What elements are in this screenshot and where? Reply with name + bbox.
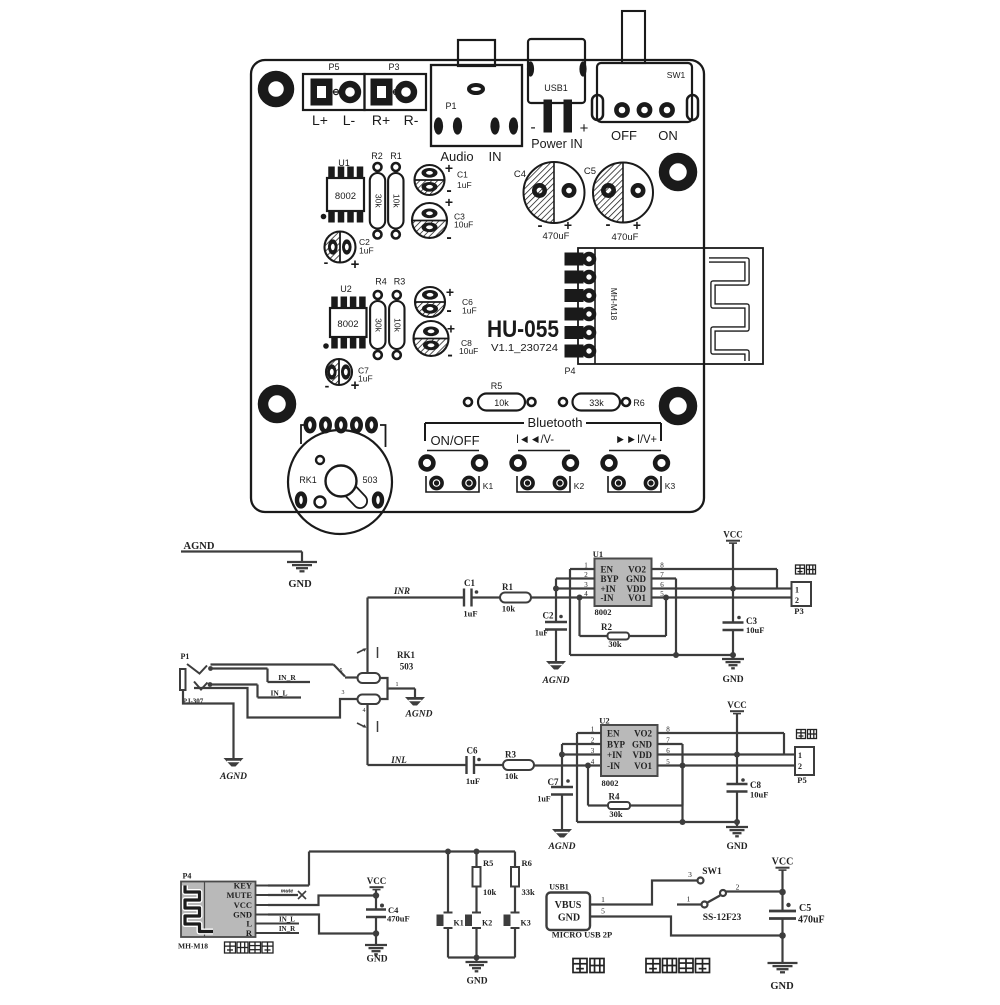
svg-text:+: + xyxy=(633,217,641,233)
svg-text:30k: 30k xyxy=(373,194,383,208)
svg-text:VO1: VO1 xyxy=(634,761,652,771)
ground xyxy=(287,561,317,563)
svg-text:2: 2 xyxy=(736,883,740,892)
svg-text:-: - xyxy=(446,229,451,246)
wire U2 +IN join xyxy=(562,753,601,755)
mounting hole top-right xyxy=(664,158,692,186)
net stub IN L xyxy=(256,923,299,925)
svg-text:1uF: 1uF xyxy=(466,776,480,786)
svg-text:VCC: VCC xyxy=(234,900,252,910)
key gnd rail xyxy=(448,956,515,958)
pot section 2 xyxy=(358,695,381,705)
svg-text:VDD: VDD xyxy=(633,750,653,760)
svg-text:ON: ON xyxy=(658,128,678,143)
pot section 1 xyxy=(358,673,381,683)
svg-text:►►I/V+: ►►I/V+ xyxy=(615,432,657,446)
wire U2 VDD row xyxy=(658,753,785,755)
svg-text:3: 3 xyxy=(342,690,345,696)
svg-text:K3: K3 xyxy=(665,481,676,491)
svg-text:ON/OFF: ON/OFF xyxy=(430,433,479,448)
svg-text:P4: P4 xyxy=(564,366,575,376)
wire U1 VO1 to P3 pin2 xyxy=(652,596,792,598)
svg-text:-IN: -IN xyxy=(607,761,620,771)
svg-text:U2: U2 xyxy=(340,284,352,294)
ground under C4 xyxy=(365,944,387,946)
node VO1 junction ch2 xyxy=(680,763,686,769)
svg-text:INR: INR xyxy=(393,586,410,596)
svg-text:1: 1 xyxy=(601,895,605,904)
svg-text:EN: EN xyxy=(607,729,620,739)
svg-text:VO1: VO1 xyxy=(628,593,646,603)
wire C6 to R3 xyxy=(474,764,503,766)
svg-text:VO2: VO2 xyxy=(634,729,652,739)
svg-text:C2: C2 xyxy=(543,611,554,621)
svg-text:R4: R4 xyxy=(609,792,620,802)
svg-text:-: - xyxy=(447,347,452,364)
wire U1 GND to rail xyxy=(652,577,677,579)
net stub IN L xyxy=(210,683,258,685)
svg-text:2: 2 xyxy=(795,596,799,605)
svg-text:8002: 8002 xyxy=(337,319,358,330)
potentiometer RK1 silkscreen xyxy=(301,425,306,444)
svg-text:10uF: 10uF xyxy=(454,220,473,230)
capacitor C7 1uF xyxy=(326,359,339,385)
svg-text:Power IN: Power IN xyxy=(531,137,582,151)
capacitor C4 470uF xyxy=(380,904,384,908)
speaker connector P3 xyxy=(796,565,805,574)
capacitor C3 10uF xyxy=(412,221,447,239)
svg-text:+: + xyxy=(445,160,453,176)
svg-text:33k: 33k xyxy=(589,398,604,408)
svg-text:AGND: AGND xyxy=(405,710,433,720)
svg-text:GND: GND xyxy=(770,981,794,992)
resistor R6 33k silkscreen xyxy=(559,398,567,406)
svg-text:K1: K1 xyxy=(483,481,494,491)
node BYP/+IN junction xyxy=(553,586,559,592)
ground main xyxy=(768,962,798,964)
analog ground AGND under C2 xyxy=(546,661,566,670)
wire INL to C6 xyxy=(368,764,467,766)
svg-text:R5: R5 xyxy=(491,381,503,391)
svg-text:3: 3 xyxy=(688,870,692,879)
node -IN junction xyxy=(577,595,583,601)
mounting hole top-left xyxy=(263,76,289,102)
svg-text:503: 503 xyxy=(362,475,377,485)
svg-text:8002: 8002 xyxy=(602,778,619,788)
svg-text:10uF: 10uF xyxy=(459,346,478,356)
node VDD/VCC junction xyxy=(730,586,736,592)
svg-text:30k: 30k xyxy=(374,318,384,332)
svg-text:1: 1 xyxy=(798,751,802,760)
svg-text:SW1: SW1 xyxy=(702,867,722,877)
capacitor C8 10uF xyxy=(741,778,745,782)
svg-text:AGND: AGND xyxy=(184,541,215,552)
wiper wire from INR xyxy=(366,598,368,674)
wire USB GND to C5 xyxy=(590,917,783,936)
antenna trace xyxy=(709,260,747,361)
svg-text:R6: R6 xyxy=(633,398,645,408)
svg-text:P3: P3 xyxy=(388,62,399,72)
svg-text:R2: R2 xyxy=(601,622,612,632)
svg-text:R: R xyxy=(246,928,253,938)
USB power connector USB1 xyxy=(528,39,585,103)
ground under keys xyxy=(466,961,488,963)
label power switch (chinese) xyxy=(646,959,660,973)
svg-text:2: 2 xyxy=(798,762,802,771)
svg-text:R2: R2 xyxy=(371,151,383,161)
key K1 branch xyxy=(447,852,449,913)
wire U1 BYP to C2 xyxy=(556,577,595,579)
svg-text:P4: P4 xyxy=(183,872,192,881)
analog ground AGND pot xyxy=(405,697,425,706)
svg-text:1uF: 1uF xyxy=(537,795,550,804)
wire U1 +IN join xyxy=(556,587,595,589)
svg-text:C5: C5 xyxy=(799,903,811,914)
mounting hole bottom-right xyxy=(664,392,692,420)
svg-text:10k: 10k xyxy=(502,604,516,614)
svg-text:K3: K3 xyxy=(521,919,531,928)
svg-text:GND: GND xyxy=(632,740,653,750)
svg-text:MH-M18: MH-M18 xyxy=(609,288,619,321)
wire U2 EN down to gnd rail xyxy=(577,732,601,734)
svg-text:1uF: 1uF xyxy=(463,609,477,619)
wire U2 VO1 to P5 pin2 xyxy=(658,764,796,766)
capacitor C6 1uF xyxy=(465,756,467,774)
svg-text:R-: R- xyxy=(404,112,419,128)
svg-text:GND: GND xyxy=(722,675,743,685)
svg-text:P1: P1 xyxy=(181,652,190,661)
svg-text:10k: 10k xyxy=(483,887,497,897)
svg-text:C1: C1 xyxy=(464,578,475,588)
wire U1 VDD row xyxy=(652,587,778,589)
wire jack sleeve to AGND xyxy=(183,690,234,758)
svg-text:R+: R+ xyxy=(372,112,390,128)
tact switch K1 xyxy=(427,450,479,452)
feedback resistor R4 30k xyxy=(587,766,589,806)
wire R3 to U2 pin4 xyxy=(534,764,601,766)
pcb board outline xyxy=(251,60,704,512)
svg-text:V1.1_230724: V1.1_230724 xyxy=(491,342,558,354)
svg-text:-IN: -IN xyxy=(601,593,614,603)
connector P3 terminal block xyxy=(365,74,427,110)
wire INR to C1 xyxy=(368,596,465,598)
svg-text:L-: L- xyxy=(343,112,356,128)
svg-text:C4: C4 xyxy=(514,169,526,180)
wire module VCC to C4 xyxy=(268,896,376,906)
resistor R6 33k + key K3 branch xyxy=(514,852,516,868)
svg-text:30k: 30k xyxy=(608,639,622,649)
feedback resistor R2 30k xyxy=(578,598,580,637)
capacitor C8 10uF xyxy=(414,339,449,357)
svg-text:P5: P5 xyxy=(328,62,339,72)
svg-text:-: - xyxy=(325,378,330,394)
svg-text:GND: GND xyxy=(726,842,747,852)
svg-text:C1: C1 xyxy=(457,170,468,180)
mounting hole bottom-left xyxy=(263,390,291,418)
svg-text:C8: C8 xyxy=(750,780,761,790)
svg-text:+IN: +IN xyxy=(607,750,623,760)
node VO1 junction xyxy=(663,595,669,601)
svg-text:470uF: 470uF xyxy=(543,231,570,242)
svg-text:1uF: 1uF xyxy=(359,246,374,256)
svg-text:8002: 8002 xyxy=(335,191,356,202)
svg-text:IN_R: IN_R xyxy=(279,925,296,933)
svg-text:R3: R3 xyxy=(394,277,406,287)
svg-text:AGND: AGND xyxy=(219,772,247,782)
svg-text:GND: GND xyxy=(558,913,580,924)
tact switch K2 xyxy=(518,450,570,452)
svg-text:+: + xyxy=(445,194,453,210)
capacitor C1 1uF xyxy=(415,180,445,195)
ground under C8 xyxy=(736,822,738,827)
wire U2 BYP to C7 xyxy=(562,743,601,745)
audio jack P1 xyxy=(458,40,495,66)
svg-text:KEY: KEY xyxy=(234,881,252,891)
svg-text:-: - xyxy=(446,302,451,319)
svg-text:10uF: 10uF xyxy=(750,790,768,800)
svg-text:4: 4 xyxy=(591,758,595,766)
wire U1 EN down to gnd rail xyxy=(570,568,595,570)
svg-text:+: + xyxy=(446,284,454,300)
gnd rail channel1 xyxy=(570,654,733,656)
capacitor C6 1uF xyxy=(415,302,445,317)
gnd rail channel2 xyxy=(577,821,737,823)
svg-text:33k: 33k xyxy=(522,887,536,897)
svg-text:RK1: RK1 xyxy=(397,650,416,660)
svg-text:BYP: BYP xyxy=(601,574,620,584)
tact switch K3 xyxy=(609,450,661,452)
svg-text:4: 4 xyxy=(363,708,366,714)
capacitor C2 1uF xyxy=(325,232,341,263)
analog ground AGND under C7 xyxy=(552,829,572,838)
svg-text:+: + xyxy=(351,256,360,273)
svg-text:IN_R: IN_R xyxy=(278,673,296,682)
svg-text:GND: GND xyxy=(366,955,387,965)
speaker connector P5 xyxy=(797,730,806,739)
svg-text:VBUS: VBUS xyxy=(555,900,582,911)
svg-text:1: 1 xyxy=(687,895,691,904)
svg-text:AGND: AGND xyxy=(542,676,570,686)
svg-text:VO2: VO2 xyxy=(628,565,646,575)
svg-text:K2: K2 xyxy=(482,919,492,928)
net stub IN R xyxy=(211,667,268,669)
svg-text:470uF: 470uF xyxy=(798,915,825,926)
svg-text:VCC: VCC xyxy=(723,530,743,540)
svg-text:10k: 10k xyxy=(392,194,402,208)
svg-text:MH-M18: MH-M18 xyxy=(178,942,208,951)
svg-text:-: - xyxy=(530,119,535,136)
wire U2 GND to rail xyxy=(658,743,683,745)
slide switch SW1 xyxy=(622,11,645,63)
svg-text:-: - xyxy=(324,254,329,270)
svg-text:8002: 8002 xyxy=(595,607,612,617)
wiper 2 down to INL xyxy=(366,704,368,765)
wire C1 to R1 xyxy=(472,596,501,598)
svg-text:L: L xyxy=(246,919,252,929)
svg-text:USB1: USB1 xyxy=(549,883,569,892)
svg-text:HU-055: HU-055 xyxy=(487,316,559,343)
key rail xyxy=(309,850,515,852)
svg-text:MUTE: MUTE xyxy=(227,890,253,900)
svg-text:P3: P3 xyxy=(794,606,803,616)
svg-text:MICRO USB 2P: MICRO USB 2P xyxy=(552,930,612,940)
capacitor C5 470uF xyxy=(786,903,790,907)
svg-text:5: 5 xyxy=(340,668,343,674)
svg-text:AGND: AGND xyxy=(548,842,576,852)
bluetooth module P4 MH-M18 xyxy=(181,882,256,938)
svg-text:GND: GND xyxy=(626,574,647,584)
wire R1 to U1 pin4 xyxy=(531,596,595,598)
capacitor C3 10uF xyxy=(737,616,741,620)
svg-text:C7: C7 xyxy=(548,777,559,787)
svg-text:SW1: SW1 xyxy=(667,70,686,80)
svg-text:BYP: BYP xyxy=(607,740,626,750)
ground under C3 xyxy=(732,655,734,659)
svg-text:R1: R1 xyxy=(390,151,402,161)
svg-text:USB1: USB1 xyxy=(544,83,568,93)
svg-text:10k: 10k xyxy=(505,771,519,781)
node BYP/+IN junction ch2 xyxy=(559,752,565,758)
board edge over module xyxy=(703,248,705,364)
svg-text:R6: R6 xyxy=(522,858,532,868)
svg-text:5: 5 xyxy=(601,907,605,916)
svg-text:1uF: 1uF xyxy=(358,374,373,384)
wire jack ring to pot lower xyxy=(194,688,358,718)
analog ground AGND under jack xyxy=(224,758,244,767)
node VDD/VCC junction ch2 xyxy=(734,752,740,758)
svg-text:+: + xyxy=(447,321,455,337)
svg-text:P1: P1 xyxy=(445,101,456,111)
label power (chinese) xyxy=(573,959,587,973)
svg-text:503: 503 xyxy=(400,662,414,672)
svg-text:10k: 10k xyxy=(494,398,509,408)
svg-text:I◄◄/V-: I◄◄/V- xyxy=(516,432,554,446)
wire KEY to key rail xyxy=(268,884,309,886)
svg-text:1uF: 1uF xyxy=(535,629,548,638)
svg-text:R5: R5 xyxy=(483,858,493,868)
svg-text:R3: R3 xyxy=(505,750,516,760)
wire module GND to C4 bottom xyxy=(268,915,373,934)
svg-text:K1: K1 xyxy=(454,919,464,928)
svg-text:IN_L: IN_L xyxy=(279,916,295,924)
node -IN junction ch2 xyxy=(585,763,591,769)
svg-text:RK1: RK1 xyxy=(299,475,317,485)
resistor R5 10k + key K2 branch xyxy=(475,852,477,868)
svg-text:VCC: VCC xyxy=(367,876,387,886)
svg-text:IN_L: IN_L xyxy=(270,689,287,698)
svg-text:C5: C5 xyxy=(584,166,596,177)
capacitor C1 1uF xyxy=(463,589,465,607)
svg-text:VCC: VCC xyxy=(772,857,794,868)
svg-text:IN: IN xyxy=(489,149,502,164)
svg-text:30k: 30k xyxy=(609,809,623,819)
svg-text:1uF: 1uF xyxy=(462,306,477,316)
wire jack tip to pot xyxy=(211,663,334,665)
svg-text:1: 1 xyxy=(795,586,799,595)
svg-text:C6: C6 xyxy=(467,746,478,756)
svg-text:K2: K2 xyxy=(574,481,585,491)
wire U1 VO2 to P3 pin1 xyxy=(652,568,778,570)
net stub IN R xyxy=(256,932,299,934)
pot common to AGND xyxy=(380,678,388,699)
svg-text:1: 1 xyxy=(396,682,399,688)
svg-text:+: + xyxy=(580,120,589,137)
svg-text:SS-12F23: SS-12F23 xyxy=(703,913,742,923)
svg-text:R1: R1 xyxy=(502,582,513,592)
svg-text:-: - xyxy=(606,216,611,233)
svg-text:OFF: OFF xyxy=(611,128,637,143)
svg-text:10uF: 10uF xyxy=(746,625,764,635)
svg-text:P5: P5 xyxy=(797,775,806,785)
svg-text:4: 4 xyxy=(584,590,588,598)
svg-text:1uF: 1uF xyxy=(457,180,472,190)
svg-text:470uF: 470uF xyxy=(612,232,639,243)
wire VBUS to SW1 xyxy=(590,881,697,905)
connector P5 terminal block xyxy=(303,74,365,110)
svg-text:EN: EN xyxy=(601,565,614,575)
svg-text:L+: L+ xyxy=(312,112,328,128)
svg-text:INL: INL xyxy=(390,755,407,765)
net stub mute (nc) xyxy=(268,894,298,896)
svg-text:10k: 10k xyxy=(393,318,403,332)
svg-text:VCC: VCC xyxy=(727,700,747,710)
svg-text:R4: R4 xyxy=(375,277,387,287)
wire U2 VO2 to P5 pin1 xyxy=(658,732,785,734)
svg-text:Bluetooth: Bluetooth xyxy=(528,415,583,430)
svg-text:GND: GND xyxy=(466,977,487,987)
bluetooth module MH-M18 (P4 header) xyxy=(578,248,763,364)
svg-text:470uF: 470uF xyxy=(387,914,410,924)
svg-text:GND: GND xyxy=(288,579,312,590)
